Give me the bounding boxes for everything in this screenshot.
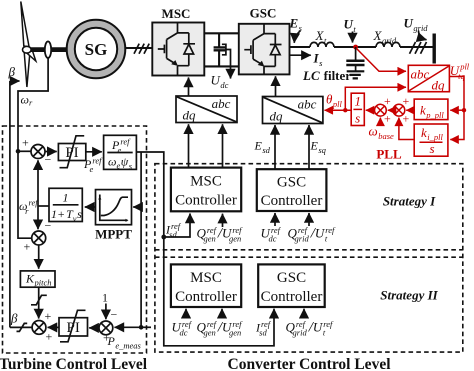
svg-text:−: − bbox=[111, 308, 118, 322]
wire summer1 to PI1 bbox=[45, 151, 57, 153]
svg-text:SG: SG bbox=[85, 40, 108, 59]
wire Qgrid ref arrow (Strategy I) bbox=[308, 213, 310, 226]
converter GSC box bbox=[239, 24, 290, 75]
summer 1 (speed error) bbox=[31, 145, 45, 159]
wire GSC to Xt bbox=[290, 46, 311, 48]
wire Qgen ref arrow (Strategy I) bbox=[222, 214, 224, 227]
wire Udc ref arrow (Strategy I) bbox=[274, 213, 276, 226]
svg-text:Controller: Controller bbox=[261, 289, 323, 305]
svg-text:+: + bbox=[384, 94, 391, 108]
svg-text:GSC: GSC bbox=[277, 175, 306, 191]
svg-text:+: + bbox=[403, 112, 410, 126]
three-phase hatch grid bbox=[410, 42, 427, 54]
svg-text:−: − bbox=[45, 219, 52, 233]
integrator block 1/s (red) bbox=[351, 93, 364, 125]
dc link bottom rail bbox=[204, 65, 239, 67]
wire MSC controller outputs to box1 bbox=[188, 124, 190, 167]
svg-text:+: + bbox=[24, 240, 31, 254]
svg-text:abc: abc bbox=[212, 96, 231, 111]
node Pe_meas (dot) bbox=[139, 325, 144, 330]
node omega_r junction (dot) bbox=[16, 149, 21, 154]
wire beta output bbox=[10, 326, 32, 328]
node theta_pll (red dot) bbox=[343, 108, 347, 112]
svg-text:Strategy II: Strategy II bbox=[380, 288, 438, 303]
block Pe_ref/(omega*psi) bbox=[104, 135, 137, 171]
wire Pe_meas into summer4 bbox=[115, 326, 142, 328]
wire summer4 to PI2 bbox=[89, 327, 99, 329]
wire PI2 to summer3 bbox=[48, 326, 59, 328]
svg-text:1: 1 bbox=[354, 94, 361, 109]
inductor Xt bbox=[310, 42, 334, 47]
svg-text:MPPT: MPPT bbox=[95, 227, 132, 242]
turbine control level dashed box bbox=[3, 126, 147, 353]
wire Isd ref into GSC controller II bbox=[164, 237, 274, 346]
LC filter cap lower lead bbox=[355, 65, 357, 71]
svg-text:dq: dq bbox=[183, 108, 197, 123]
gain block Kpitch bbox=[20, 271, 55, 288]
MSC Controller box (Strategy II) bbox=[171, 264, 241, 307]
rate limiter mark bbox=[31, 295, 47, 305]
svg-text:abc: abc bbox=[411, 67, 430, 82]
MSC diode bbox=[178, 33, 196, 66]
wire Qgrid ref arrow (Strategy II) bbox=[303, 309, 305, 318]
svg-text:Converter Control Level: Converter Control Level bbox=[228, 356, 392, 371]
strategy divider dashed lines bbox=[155, 249, 463, 251]
node Isd_ref (dot) bbox=[161, 235, 166, 240]
wire kp to summer (red) bbox=[406, 109, 414, 111]
wire Pe branch down bbox=[140, 152, 142, 327]
wire theta_pll to GSC transform (red) bbox=[325, 109, 352, 111]
summer 2 (pitch activation) bbox=[32, 231, 46, 245]
svg-text:Strategy I: Strategy I bbox=[383, 194, 436, 209]
svg-text:+: + bbox=[384, 112, 391, 126]
dc link capacitor bbox=[214, 33, 226, 66]
wire Esq to box2 bbox=[308, 125, 310, 169]
svg-text:GSC: GSC bbox=[277, 270, 306, 286]
wire Isd_ref from division box bbox=[136, 152, 163, 237]
PI controller 1 box bbox=[58, 144, 85, 162]
svg-text:MSC: MSC bbox=[190, 174, 222, 190]
wind turbine blade upper bbox=[21, 2, 29, 48]
wire Udc ref arrow (Strategy II) bbox=[185, 309, 187, 318]
beta pitch input arrow bbox=[10, 80, 20, 82]
summer 3 (beta sum) bbox=[32, 321, 46, 335]
wire omega_ref to junction bbox=[38, 205, 49, 207]
integrator block ki_pll/s (red) bbox=[414, 124, 448, 156]
wire Utq to kp/ki (red) bbox=[449, 77, 464, 140]
Udc probe bracket bbox=[222, 44, 226, 55]
dq-abc transform GSC (box2) bbox=[263, 97, 323, 124]
svg-text:Controller: Controller bbox=[175, 193, 237, 209]
GSC IGBT bbox=[244, 23, 275, 74]
svg-text:+: + bbox=[46, 330, 53, 344]
svg-text:1: 1 bbox=[102, 291, 108, 305]
wire box2 to GSC converter bbox=[275, 76, 277, 96]
PLL abc-dq transform U1 (red) bbox=[408, 65, 449, 92]
omega_base arrow (red) bbox=[379, 118, 381, 125]
MSC IGBT bbox=[158, 23, 189, 76]
Ut arrow bbox=[352, 32, 354, 43]
svg-text:−: − bbox=[45, 153, 52, 167]
inductor Xgrid bbox=[376, 42, 400, 47]
wire ki to summer (red) bbox=[399, 118, 414, 140]
svg-text:dq: dq bbox=[432, 78, 446, 93]
svg-text:Qrefgen/Urefgen: Qrefgen/Urefgen bbox=[197, 319, 244, 338]
wire PI1 to power division box bbox=[86, 151, 102, 153]
Udc measurement arrow bbox=[226, 50, 231, 79]
wire summer to summer (red) bbox=[388, 109, 393, 111]
node Ut (red dot) bbox=[353, 45, 358, 50]
svg-text:+: + bbox=[22, 136, 29, 150]
generator SG outer ring bbox=[67, 20, 126, 79]
wire Isd_ref into MSC controller I bbox=[164, 214, 190, 238]
speed sensor on shaft bbox=[45, 41, 51, 58]
wire Xt to Xgrid bbox=[334, 46, 376, 48]
summer right (red) bbox=[393, 104, 405, 116]
GSC Controller box (Strategy I) bbox=[257, 169, 327, 211]
turbine hub bbox=[23, 46, 32, 53]
filter block 1/(1+Tvs) bbox=[49, 188, 82, 223]
svg-text:Turbine Control Level: Turbine Control Level bbox=[0, 356, 148, 371]
summer 4 (power error) bbox=[99, 321, 113, 335]
svg-text:MSC: MSC bbox=[190, 270, 222, 286]
node kp branch (red dot) bbox=[462, 108, 466, 112]
wire omega_r into summer 1 bbox=[18, 150, 31, 152]
GSC diode bbox=[264, 34, 282, 67]
omega_r sensor wire bbox=[18, 58, 48, 238]
wire Kpitch to summer3 bbox=[38, 287, 40, 318]
LC filter capacitor plates bbox=[346, 61, 364, 65]
wire Ut tap to PLL abc-dq (red) bbox=[357, 49, 407, 72]
PI controller 2 box bbox=[59, 318, 88, 336]
wire Pe_meas stub bbox=[141, 326, 151, 328]
GSC Controller box (Strategy II) bbox=[258, 264, 325, 307]
wind turbine blade lower bbox=[24, 52, 30, 87]
wire Xgrid to grid bar bbox=[400, 46, 434, 48]
wire omega_ref up into summer1 bbox=[37, 160, 39, 206]
svg-text:s: s bbox=[355, 111, 360, 126]
svg-text:LCfilter: LCfilter bbox=[302, 68, 351, 83]
generator SG inner circle bbox=[75, 28, 117, 70]
wire branch into kp (red) bbox=[450, 109, 464, 111]
Is current arrow bbox=[290, 54, 311, 56]
svg-text:dq: dq bbox=[270, 109, 284, 124]
svg-text:abc: abc bbox=[298, 97, 317, 112]
wire box1 to MSC converter bbox=[188, 78, 190, 97]
gain block kp_pll (red) bbox=[414, 99, 448, 120]
ground bbox=[347, 71, 365, 78]
svg-text:+: + bbox=[45, 309, 52, 323]
LC filter capacitor lead bbox=[355, 47, 357, 60]
wire MPPT to filter bbox=[85, 206, 96, 208]
svg-text:+: + bbox=[403, 94, 410, 108]
MPPT block bbox=[96, 190, 132, 225]
shaft SG to MSC bbox=[125, 47, 152, 49]
wire summer2 to Kpitch bbox=[38, 245, 40, 269]
wire 1 into summer4 bbox=[105, 304, 107, 320]
turbine shaft bbox=[27, 47, 68, 52]
converter MSC box bbox=[152, 23, 204, 76]
wire omega_ref down into summer2 bbox=[37, 206, 39, 229]
dc link top rail bbox=[204, 32, 239, 34]
svg-text:β: β bbox=[8, 64, 16, 79]
wire tap into MPPT bbox=[133, 206, 141, 208]
dq-abc transform MSC (box1) bbox=[176, 96, 237, 123]
svg-text:Controller: Controller bbox=[175, 289, 237, 305]
PI1 saturation mark bbox=[60, 136, 85, 168]
wind turbine blade front bbox=[26, 50, 36, 61]
wire Qgen ref arrow (Strategy II) bbox=[221, 309, 223, 318]
Ugrid arrow bbox=[419, 31, 427, 40]
svg-text:s: s bbox=[430, 141, 435, 156]
three-phase hatch SG-MSC bbox=[134, 44, 149, 54]
wire summer to integrator 1/s (red) bbox=[366, 109, 375, 111]
beta output limiter mark bbox=[17, 323, 28, 331]
svg-text:MSC: MSC bbox=[162, 6, 191, 21]
wire theta_pll feedback to abc-dq (red) bbox=[345, 87, 406, 110]
beta wire (left vertical) bbox=[9, 81, 11, 327]
grid bus bar bbox=[433, 34, 436, 64]
svg-text:Controller: Controller bbox=[261, 193, 323, 209]
Es arrow bbox=[294, 31, 300, 43]
PI2 saturation mark bbox=[60, 310, 86, 342]
converter control level dashed box bbox=[155, 164, 463, 352]
svg-text:GSC: GSC bbox=[250, 6, 277, 21]
svg-text:1: 1 bbox=[63, 191, 69, 205]
wire Esd to box2 bbox=[274, 125, 276, 169]
svg-text:β: β bbox=[10, 311, 18, 326]
summer left (red) bbox=[375, 104, 387, 116]
svg-text:PLL: PLL bbox=[376, 147, 402, 162]
svg-text:Qrefgen/Urefgen: Qrefgen/Urefgen bbox=[197, 225, 244, 244]
MSC Controller box (Strategy I) bbox=[171, 168, 241, 212]
